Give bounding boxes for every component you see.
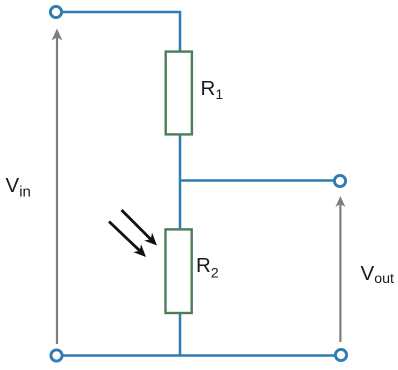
resistor R1 (166, 52, 192, 135)
terminal Vin+ (top-left) (50, 6, 61, 17)
terminal Vout (mid-right) (334, 175, 345, 186)
terminal Vout- (bottom-right) (335, 349, 346, 360)
svg-text:R2: R2 (196, 254, 219, 280)
wire from R1 bottom to R2 top (179, 133, 182, 231)
resistor R2 (LDR) (166, 229, 192, 313)
Vout annotation arrow (335, 196, 345, 342)
light arrow 1 into R2 (122, 210, 158, 246)
svg-text:Vout: Vout (361, 262, 394, 287)
svg-text:R1: R1 (201, 77, 224, 102)
terminal Vin- (bottom-left) (51, 350, 62, 361)
svg-text:Vin: Vin (6, 174, 31, 201)
wire from R2 bottom to ground rail (179, 312, 182, 356)
wire top from Vin+ terminal to corner (56, 12, 180, 52)
Vin annotation arrow (52, 29, 63, 345)
light arrow 2 into R2 (109, 222, 146, 258)
wire branch to Vout terminal (180, 179, 335, 182)
wire bottom rail (57, 354, 342, 357)
